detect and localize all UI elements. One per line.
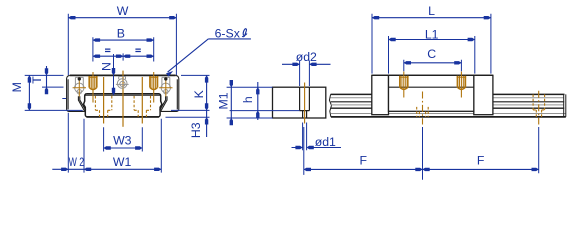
svg-text:ød1: ød1 bbox=[315, 135, 336, 149]
svg-text:M1: M1 bbox=[216, 92, 230, 109]
detail hole centerline bbox=[304, 83, 306, 124]
rail section detail rectangle bbox=[273, 87, 326, 118]
svg-text:M: M bbox=[10, 82, 24, 92]
tapped hole S right bbox=[149, 72, 158, 103]
dimension od1 bbox=[292, 123, 342, 151]
dimension H3 bbox=[166, 110, 210, 137]
svg-text:W1: W1 bbox=[113, 155, 132, 169]
dimension od2 bbox=[282, 61, 331, 87]
dimension W2 W1 bbox=[52, 113, 161, 173]
svg-text:K: K bbox=[192, 89, 206, 98]
svg-text:L1: L1 bbox=[425, 27, 439, 41]
svg-text:W: W bbox=[117, 4, 129, 18]
rail side view lines bbox=[330, 94, 565, 117]
dimension h bbox=[230, 82, 300, 120]
block mounting screw right bbox=[457, 72, 466, 98]
block left wing bbox=[67, 75, 86, 111]
dimension K bbox=[171, 75, 210, 110]
callout 6-Sxl leader bbox=[168, 39, 251, 72]
tapped hole S left bbox=[89, 72, 98, 103]
dimension M bbox=[25, 75, 83, 110]
svg-text:T: T bbox=[30, 76, 44, 84]
svg-text:h: h bbox=[241, 96, 255, 103]
block cross-section top bbox=[70, 74, 176, 76]
svg-text:H3: H3 bbox=[189, 122, 203, 138]
counterbore hole in detail bbox=[300, 87, 310, 118]
dimension equal-equal bbox=[93, 53, 154, 60]
svg-text:W 2: W 2 bbox=[69, 155, 85, 169]
svg-text:ød2: ød2 bbox=[296, 50, 317, 64]
end-seal screw circle left bbox=[75, 77, 84, 94]
dimension L bbox=[372, 14, 491, 74]
edge tick bbox=[62, 98, 66, 100]
svg-text:W3: W3 bbox=[113, 134, 132, 148]
section centerline bbox=[122, 71, 124, 127]
svg-text:C: C bbox=[427, 47, 436, 61]
rail hole left (hidden) bbox=[95, 77, 111, 124]
dimension N bbox=[113, 54, 115, 95]
svg-text:B: B bbox=[117, 27, 125, 41]
svg-text:6-Sx: 6-Sx bbox=[215, 26, 241, 40]
block right wing bbox=[160, 75, 179, 111]
tapped hole position dot right bbox=[164, 77, 167, 80]
dimension C bbox=[404, 60, 462, 72]
rail hidden hole under block bbox=[417, 92, 429, 125]
dimension F F bbox=[304, 127, 539, 180]
block mounting screw left bbox=[399, 72, 408, 98]
grease nipple center bbox=[116, 77, 129, 89]
rail hidden hole right bbox=[533, 91, 545, 125]
dimension L1 bbox=[389, 36, 475, 74]
svg-text:L: L bbox=[428, 4, 435, 18]
dimension M1 bbox=[227, 83, 273, 123]
dimension W bbox=[68, 14, 176, 75]
end-seal screw circle right bbox=[161, 77, 170, 94]
rail side view break edge bbox=[329, 94, 331, 117]
rail hole right (hidden) bbox=[134, 77, 150, 124]
tapped hole position dot left bbox=[78, 77, 81, 80]
dimension T bbox=[42, 66, 64, 94]
dimension W3 bbox=[104, 127, 143, 151]
rail cross-section bbox=[84, 94, 162, 117]
dimension B bbox=[93, 37, 154, 61]
block side view bbox=[372, 75, 493, 114]
svg-text:N: N bbox=[99, 62, 113, 71]
svg-text:F: F bbox=[360, 153, 368, 167]
svg-text:F: F bbox=[477, 153, 485, 167]
